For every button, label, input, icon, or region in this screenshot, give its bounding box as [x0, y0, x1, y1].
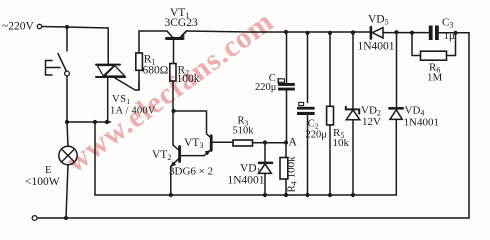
wire triac top lead: [107, 28, 109, 64]
capacitor C3: [429, 26, 439, 41]
wire VT1 base lead: [173, 40, 175, 64]
svg-text:220μ: 220μ: [306, 130, 328, 141]
wire triac gate: [115, 78, 139, 90]
node A: [284, 140, 288, 144]
node collector junction: [171, 109, 175, 113]
svg-text:1N4001: 1N4001: [358, 41, 395, 53]
svg-text:1N4001: 1N4001: [404, 117, 439, 129]
transistor VT2: [171, 145, 180, 167]
wire top rail right: [383, 32, 469, 34]
diode VD5: [371, 27, 383, 39]
node rail left of VD5: [351, 30, 355, 34]
svg-text:1M: 1M: [427, 72, 443, 84]
node lamp-line triac junction: [105, 120, 109, 124]
node R5 top: [328, 31, 332, 35]
zener diode VD2: [346, 33, 360, 196]
node R4 bottom: [284, 193, 288, 197]
wire top-left: [42, 27, 108, 29]
switch S actuator E: [46, 61, 61, 76]
node VD1 top: [263, 140, 267, 144]
wire R1 top lead: [139, 31, 167, 53]
wire top rail left: [187, 31, 371, 32]
resistor R1: [136, 53, 143, 70]
wire lamp-line horizontal: [66, 121, 111, 123]
wire R1 bottom lead: [138, 70, 140, 90]
wire internal rail: [95, 194, 396, 196]
wire collector link: [174, 111, 211, 137]
svg-text:VT2: VT2: [152, 149, 171, 162]
node C3 left: [410, 31, 414, 35]
switch S contact circle: [65, 71, 70, 76]
wire switch upper lead: [66, 27, 68, 51]
wire VT2 emitter lead: [170, 166, 172, 195]
resistor R5: [327, 33, 334, 195]
wire lamp bottom lead: [66, 165, 68, 218]
node VD2 top: [351, 30, 355, 34]
node VT2 emitter rail: [169, 193, 173, 197]
svg-text:VD5: VD5: [368, 14, 389, 27]
node VD1 bottom: [263, 193, 267, 197]
svg-text:220μ: 220μ: [255, 82, 277, 93]
capacitor C2: [297, 33, 315, 195]
node C2 bottom: [305, 193, 309, 197]
node R5 bottom: [328, 193, 332, 197]
node lamp bottom: [64, 216, 68, 220]
wire common riser: [94, 122, 96, 195]
transistor VT1: [167, 31, 187, 39]
switch S blade: [58, 54, 67, 72]
diode VD4: [389, 32, 402, 195]
svg-text:VT3: VT3: [184, 137, 203, 150]
svg-text:~220V: ~220V: [2, 21, 34, 33]
svg-text:10k: 10k: [333, 137, 350, 149]
svg-text:C2: C2: [308, 118, 319, 130]
triac VS1: [96, 65, 125, 77]
svg-text:1N4001: 1N4001: [228, 175, 265, 187]
svg-text:1A / 400V: 1A / 400V: [110, 106, 156, 117]
diode VD1: [259, 143, 272, 196]
svg-text:3CG23: 3CG23: [165, 17, 198, 29]
wire VT3 emitter to VT2 base: [181, 155, 204, 157]
wire node A line: [253, 142, 287, 144]
svg-text:VS1: VS1: [112, 94, 131, 106]
resistor R6 with loop: [412, 33, 456, 61]
wire switch to lamp-line: [66, 76, 68, 122]
svg-text:R4 100k: R4 100k: [286, 156, 299, 193]
wire lamp top lead: [67, 122, 68, 146]
terminal neutral: [32, 216, 37, 221]
node lamp-line left: [65, 120, 69, 124]
node C3 right: [453, 31, 457, 35]
wire right edge: [468, 33, 470, 218]
resistor R4: [280, 143, 288, 196]
transistor VT3: [204, 136, 233, 156]
wire triac bottom lead: [107, 77, 109, 122]
svg-text:C3: C3: [442, 17, 453, 30]
terminal live: [37, 24, 41, 28]
svg-text:3DG6 × 2: 3DG6 × 2: [169, 166, 213, 178]
wire R2 bottom lead: [172, 81, 174, 145]
capacitor C1: [278, 32, 295, 143]
resistor R2: [170, 64, 176, 82]
node C1 top: [284, 30, 288, 34]
resistor R3: [233, 140, 253, 146]
svg-text:12V: 12V: [362, 116, 381, 128]
node rail right of VD5: [394, 30, 398, 34]
svg-text:680Ω: 680Ω: [143, 65, 169, 77]
svg-text:100k: 100k: [177, 73, 200, 85]
svg-text:510k: 510k: [233, 126, 255, 137]
node C2 top: [305, 31, 309, 35]
wire bottom rail: [37, 217, 469, 219]
svg-text:<100W: <100W: [25, 176, 60, 188]
node VD2 bottom: [351, 193, 355, 197]
lamp E: [59, 146, 77, 164]
svg-text:E: E: [45, 165, 51, 176]
node junction top: [65, 25, 69, 29]
svg-text:1μ: 1μ: [444, 30, 456, 42]
node lamp-line mid: [93, 120, 97, 124]
svg-text:A: A: [289, 137, 298, 149]
